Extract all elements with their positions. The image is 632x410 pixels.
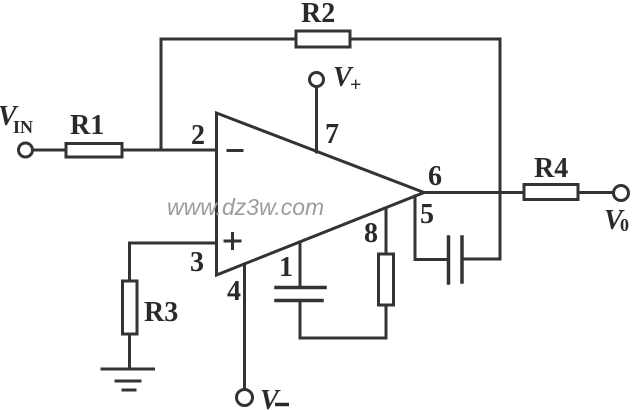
svg-text:4: 4 (227, 276, 241, 307)
wire pin 7 (315, 87, 318, 152)
wire C1 bottom down (299, 301, 302, 339)
wire pin 1 (299, 242, 302, 287)
terminal V+ (310, 73, 324, 87)
svg-text:3: 3 (190, 247, 204, 278)
svg-text:R3: R3 (144, 297, 178, 328)
wire R8 bottom (385, 305, 388, 338)
wire R4 to V0 (578, 191, 613, 194)
ground (102, 369, 154, 390)
wire pin 8 (385, 208, 388, 254)
svg-text:R2: R2 (301, 0, 335, 29)
svg-text:1: 1 (279, 252, 293, 283)
wire top feedback left segment (161, 38, 295, 41)
resistor R4 (524, 185, 578, 200)
wire pin 4 (243, 264, 246, 389)
svg-text:+: + (350, 74, 361, 96)
wire top feedback right segment (350, 38, 500, 41)
wire bottom horizontal (300, 337, 386, 340)
wire VIN to R1 (33, 149, 66, 152)
svg-text:6: 6 (428, 161, 442, 192)
capacitor C1 (276, 288, 325, 301)
resistor R3 (123, 281, 138, 334)
svg-text:R4: R4 (534, 153, 568, 184)
svg-text:www.dz3w.com: www.dz3w.com (167, 194, 324, 220)
terminal VIN (19, 143, 33, 157)
wire left feedback vertical (160, 39, 163, 150)
wire output pin 6 (424, 191, 524, 194)
svg-text:7: 7 (325, 119, 339, 150)
terminal V0 (614, 186, 629, 201)
svg-text:0: 0 (620, 215, 629, 235)
plus sign non-inverting input (225, 234, 240, 249)
wire R1 to pin 2 (123, 149, 217, 152)
svg-text:2: 2 (191, 120, 205, 151)
resistor R1 (66, 144, 122, 158)
op-amp U1 (217, 113, 425, 275)
wire pin 3 (130, 242, 217, 245)
svg-text:R1: R1 (70, 110, 104, 141)
resistor R2 (296, 31, 350, 47)
capacitor C2 (449, 237, 463, 283)
minus sign inverting input (228, 149, 242, 152)
wire right feedback vertical (499, 39, 502, 259)
wire pin 5 (415, 196, 446, 260)
svg-text:IN: IN (13, 117, 33, 137)
resistor R8 pin 8 (379, 254, 394, 305)
terminal V- (237, 390, 253, 406)
svg-text:8: 8 (364, 218, 378, 249)
wire C2 right (464, 258, 501, 261)
wire pin 3 to R3 (128, 243, 131, 281)
svg-text:5: 5 (420, 199, 434, 230)
wire R3 to ground (128, 334, 131, 369)
